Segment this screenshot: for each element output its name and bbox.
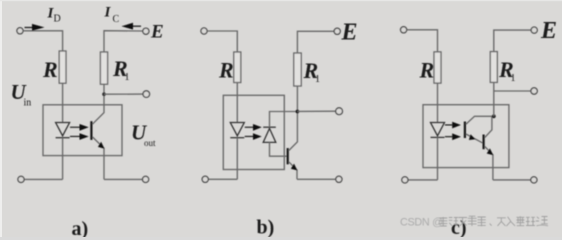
wire LED cathode down (b)	[236, 138, 238, 180]
Q1 (c) emitter arrowhead	[469, 134, 476, 140]
label ID	[47, 6, 61, 25]
wire bottom-left b	[208, 178, 237, 180]
current arrow IC	[122, 23, 142, 30]
watermark CJK strokes	[439, 216, 548, 226]
V (b) collector	[289, 112, 298, 151]
wire bottom-right c	[493, 179, 531, 181]
label Uout	[131, 121, 156, 148]
svg-text:in: in	[24, 98, 32, 109]
wire top-left a	[23, 31, 62, 51]
LED D (b)	[230, 123, 244, 138]
svg-text:1: 1	[511, 73, 516, 84]
svg-text:E: E	[341, 20, 358, 46]
svg-text:a): a)	[72, 218, 89, 237]
wire top-left c	[407, 30, 438, 52]
Q1 (c) emitter to Q2 base	[466, 134, 483, 143]
V (b) emitter	[289, 162, 297, 180]
wire E to R1 (b)	[297, 31, 334, 53]
label IC	[104, 5, 120, 26]
resistor R (c)	[434, 52, 441, 83]
wire R to LED (a)	[62, 83, 64, 122]
terminal bottom-left b	[202, 176, 208, 182]
svg-text:E: E	[540, 18, 557, 44]
resistor R1 (a)	[100, 52, 107, 84]
phototransistor Q (a) base bar	[90, 121, 92, 140]
current arrow ID	[25, 24, 45, 31]
V (b) emitter arrowhead	[291, 164, 298, 171]
Q (a) emitter	[92, 137, 104, 180]
label R1 (a)	[112, 56, 130, 83]
svg-text:b): b)	[257, 217, 275, 238]
junction dot c	[492, 114, 496, 118]
terminal out-mid b	[336, 108, 343, 115]
svg-text:1: 1	[315, 74, 320, 85]
terminal E (b)	[334, 28, 340, 34]
photodiode VD (b)	[263, 127, 276, 142]
wire R1 to dot (c)	[493, 82, 495, 116]
wire R to LED (c)	[437, 83, 439, 122]
light arrows (b)	[245, 124, 262, 140]
svg-text:C: C	[113, 14, 120, 25]
svg-text:CSDN @: CSDN @	[400, 216, 443, 228]
wire LED cathode down (c)	[437, 137, 439, 180]
left white edge strip	[0, 0, 2, 237]
top light edge strip	[0, 0, 562, 1]
darlington Q1 (c) base bar	[464, 122, 466, 139]
label R1 (c)	[498, 57, 516, 84]
darlington Q2 (c) base bar	[483, 135, 485, 150]
wire junction to terminal (a)	[104, 93, 143, 95]
wire R1 to junction (a)	[103, 84, 105, 94]
Q (a) emitter arrowhead	[98, 142, 105, 149]
optocoupler box b	[223, 95, 284, 169]
svg-text:I: I	[104, 5, 112, 21]
wire top-left b	[207, 31, 237, 52]
terminal E (a)	[143, 28, 149, 34]
terminal bottom-right b	[336, 176, 342, 182]
svg-text:1: 1	[125, 72, 130, 83]
terminal out-top a	[143, 91, 150, 98]
optocoupler box c	[423, 105, 509, 168]
terminal top-left c	[401, 27, 407, 33]
transistor V (b) base bar	[287, 148, 289, 164]
resistor R1 (c)	[490, 52, 497, 83]
wire bottom-left a	[24, 178, 62, 180]
wire photodiode anode to base (b)	[270, 142, 288, 156]
wire E to R1 (c)	[494, 30, 531, 51]
terminal E (c)	[531, 27, 537, 33]
junction dot a	[102, 92, 106, 96]
light arrows (c)	[445, 122, 461, 140]
svg-text:E: E	[150, 21, 164, 42]
wire bottom-left c	[408, 179, 437, 181]
wire photodiode cathode to junction (b)	[270, 112, 298, 128]
terminal bottom-right a	[143, 176, 149, 182]
terminal top-left b	[201, 28, 207, 34]
wire R1 to junction (b)	[296, 86, 298, 112]
terminal top-left a	[17, 28, 23, 34]
Q2 (c) emitter arrowhead	[487, 148, 494, 155]
terminal bottom-left c	[402, 177, 408, 183]
LED D (c)	[431, 123, 445, 138]
resistor R (b)	[234, 52, 241, 83]
wire LED cathode down (a)	[62, 138, 64, 180]
terminal bottom-right c	[531, 177, 537, 183]
wire junction to terminal (b)	[297, 110, 335, 112]
svg-text:D: D	[54, 14, 61, 25]
light arrows (a)	[70, 124, 89, 140]
wire E to R1 (a)	[104, 31, 143, 52]
wire R to LED (b)	[236, 83, 238, 123]
resistor R1 (b)	[294, 53, 301, 86]
Q2 (c) emitter	[485, 146, 493, 180]
junction dot b	[296, 110, 300, 114]
Q1 (c) collector	[466, 116, 494, 124]
watermark CSDN	[400, 216, 443, 228]
wire bottom-right a	[104, 178, 142, 180]
svg-text:R: R	[42, 57, 58, 82]
svg-text:c): c)	[451, 217, 467, 237]
terminal bottom-left a	[18, 176, 24, 182]
terminal out-top c	[531, 88, 537, 94]
svg-text:R: R	[218, 58, 234, 83]
optocoupler box a	[43, 105, 122, 156]
LED D (a)	[56, 123, 70, 138]
wire bottom-right b	[297, 178, 336, 180]
Q2 (c) collector	[485, 116, 492, 137]
Q (a) collector	[92, 94, 104, 124]
svg-text:R: R	[419, 58, 435, 83]
resistor R (a)	[59, 51, 66, 83]
label R1 (b)	[303, 58, 321, 85]
svg-text:out: out	[144, 138, 156, 148]
label Uin	[11, 80, 32, 109]
wire junction to terminal (c)	[494, 90, 531, 92]
